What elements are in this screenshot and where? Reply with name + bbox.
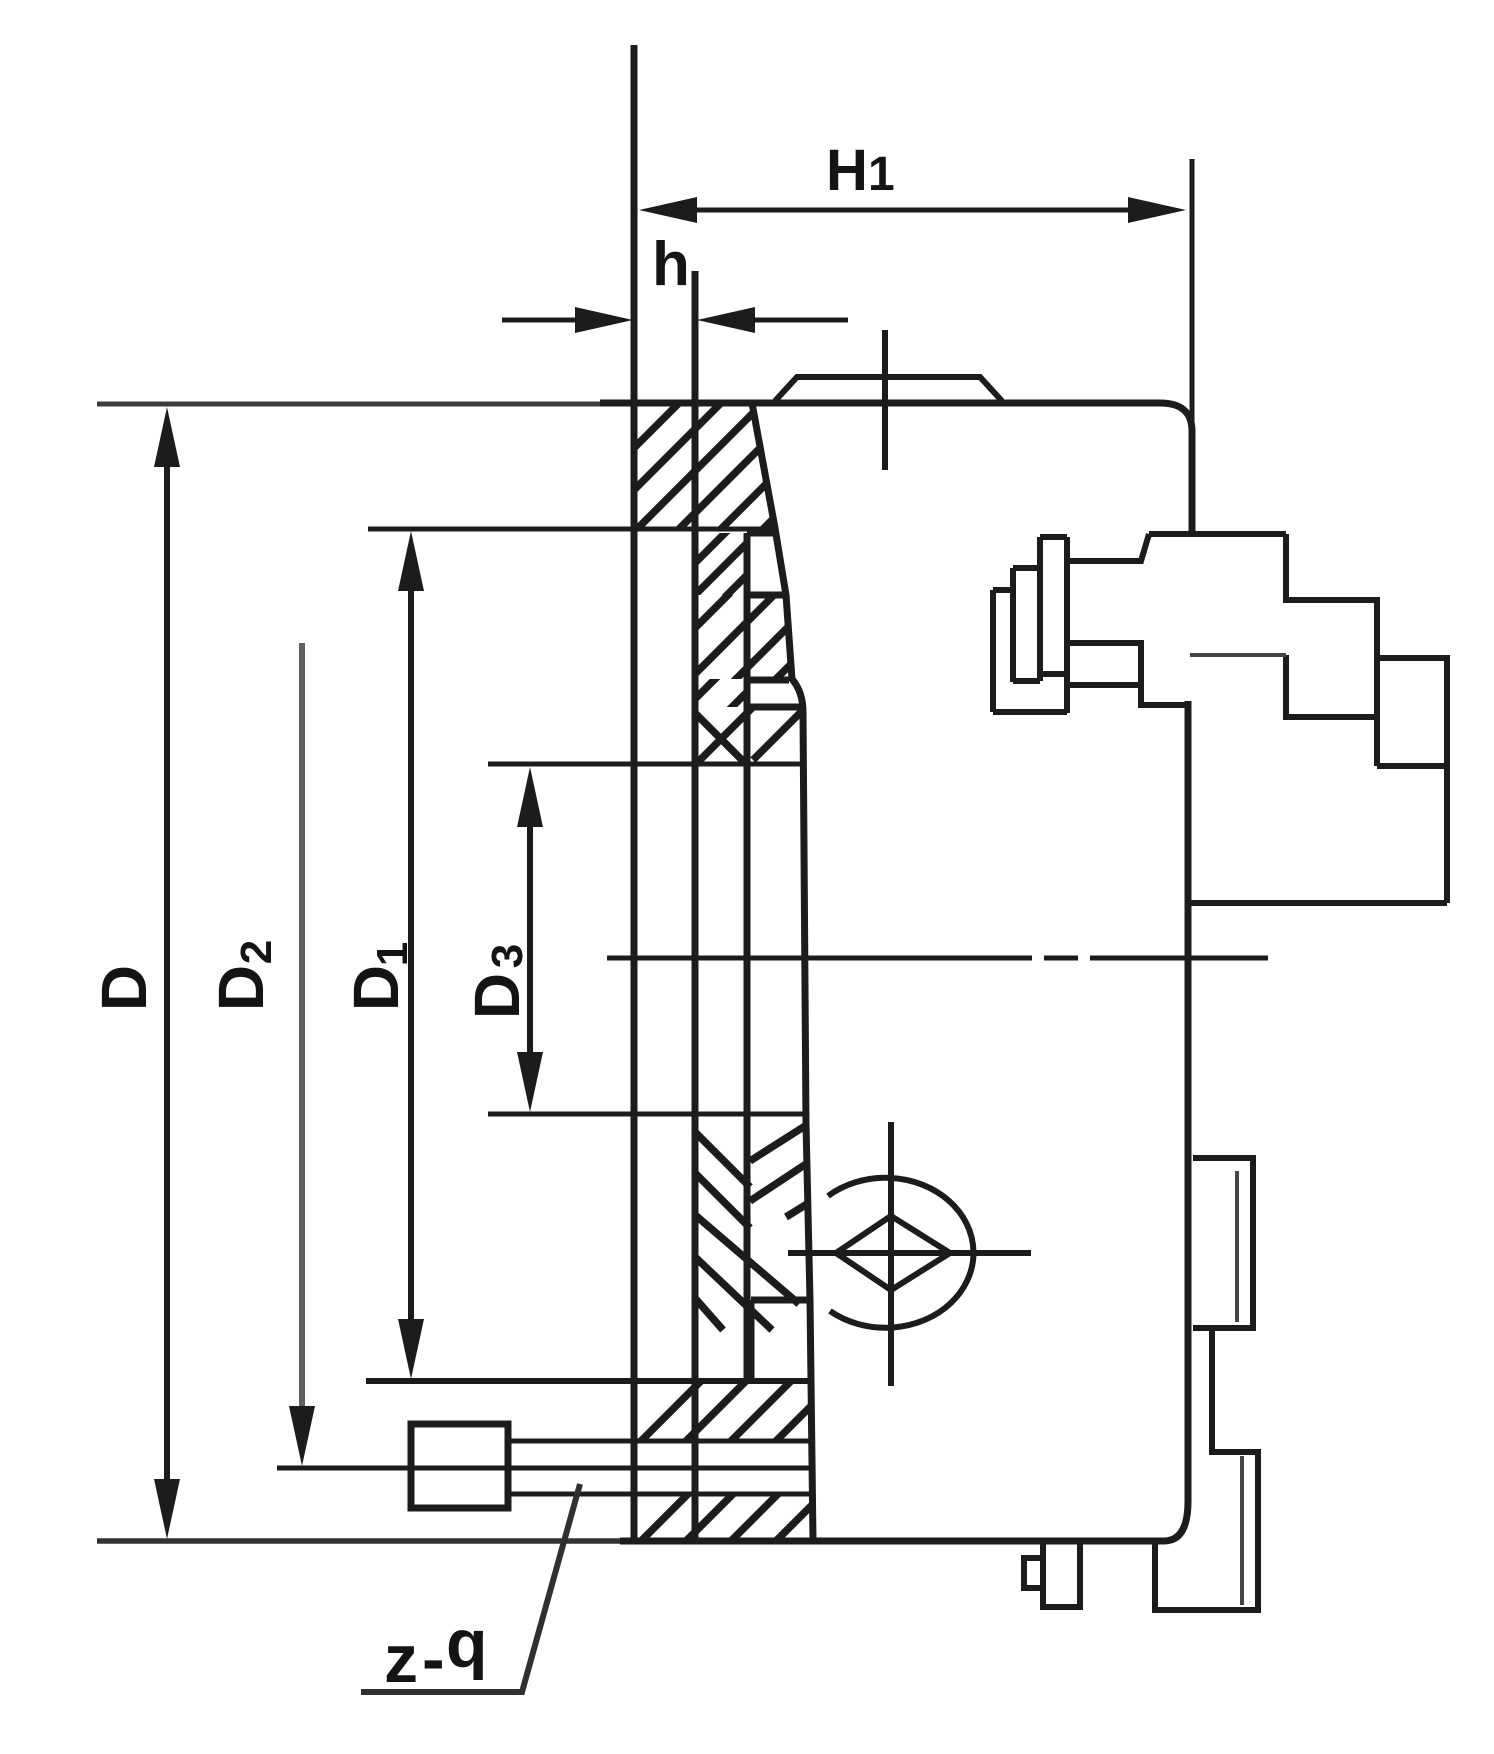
svg-text:D: D bbox=[461, 973, 533, 1019]
svg-text:h: h bbox=[652, 230, 690, 299]
svg-text:D: D bbox=[205, 965, 277, 1011]
svg-text:1: 1 bbox=[368, 942, 417, 966]
svg-text:z: z bbox=[384, 1621, 418, 1697]
svg-text:1: 1 bbox=[868, 148, 895, 201]
svg-text:-: - bbox=[422, 1621, 445, 1697]
svg-text:3: 3 bbox=[483, 944, 532, 968]
svg-text:D: D bbox=[88, 965, 160, 1011]
svg-text:D: D bbox=[340, 965, 412, 1011]
svg-text:2: 2 bbox=[232, 940, 281, 964]
svg-text:H: H bbox=[826, 138, 868, 203]
svg-text:d: d bbox=[446, 1616, 488, 1692]
